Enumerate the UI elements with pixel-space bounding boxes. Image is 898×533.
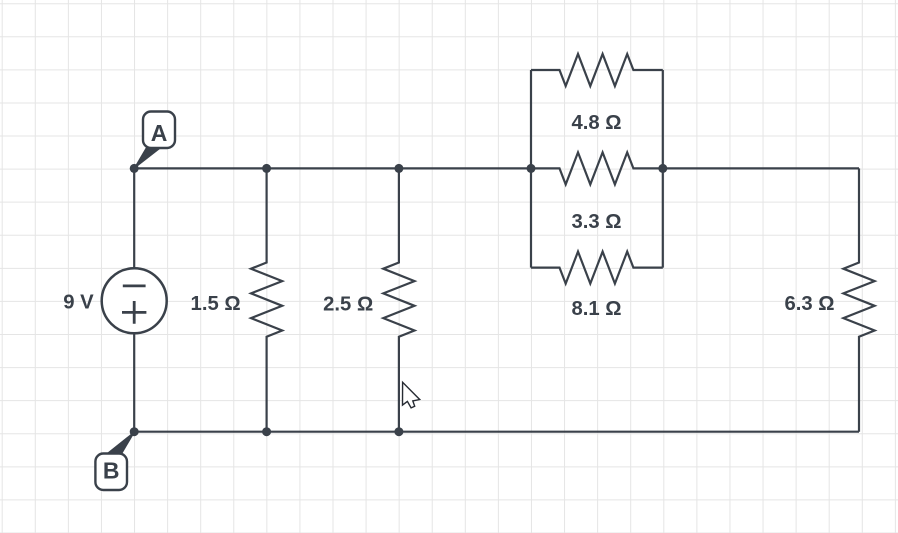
svg-text:B: B [103,457,120,483]
svg-text:8.1 Ω: 8.1 Ω [571,298,621,320]
svg-text:2.5 Ω: 2.5 Ω [323,293,373,315]
svg-text:4.8 Ω: 4.8 Ω [571,112,621,134]
svg-text:A: A [151,120,168,146]
svg-text:6.3 Ω: 6.3 Ω [784,293,834,315]
svg-text:1.5 Ω: 1.5 Ω [191,293,241,315]
svg-text:3.3 Ω: 3.3 Ω [571,211,621,233]
svg-text:9 V: 9 V [63,292,94,314]
